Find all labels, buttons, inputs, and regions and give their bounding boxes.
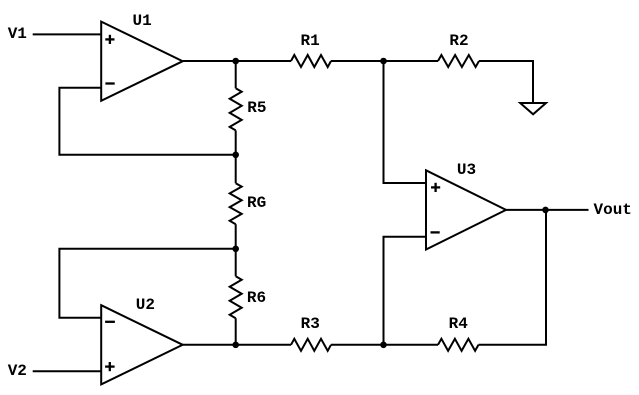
wire: node B down to U3 + — [384, 61, 427, 183]
svg-text:V1: V1 — [8, 25, 27, 43]
svg-text:U3: U3 — [457, 161, 476, 179]
junction: U2 out / R6 node E — [232, 342, 239, 349]
resistor R6 — [230, 276, 242, 318]
wire: node C to RG — [235, 155, 237, 183]
resistor R5 — [230, 88, 242, 130]
wire: U1 output to R1 — [183, 60, 291, 62]
wire: V1 input to U1 + — [33, 33, 102, 35]
wire: R5 to node C — [235, 130, 237, 154]
wire: R3 to node F — [331, 344, 438, 346]
resistor R2 — [438, 55, 479, 67]
resistor R3 — [291, 339, 331, 351]
wire: U1 - feedback loop — [59, 88, 235, 155]
op-amp U1 — [101, 22, 183, 101]
junction: R5-RG feedback node C — [232, 152, 239, 159]
junction: R1-R2 node B — [380, 58, 387, 65]
wire: R6 to node E — [235, 318, 237, 345]
resistor R1 — [291, 55, 331, 67]
svg-text:R6: R6 — [247, 289, 266, 307]
svg-text:U1: U1 — [133, 12, 152, 30]
wire: U3 - down to node F — [384, 237, 427, 345]
svg-text:R4: R4 — [449, 315, 469, 333]
wire: R2 to ground corner — [479, 61, 533, 102]
svg-text:U2: U2 — [136, 296, 155, 314]
wire: node D to R6 — [235, 249, 237, 276]
wire: R4 to Vout corner — [479, 210, 547, 345]
junction: U1 out / R5 node A — [232, 58, 239, 65]
wire: U3 output to Vout — [506, 209, 589, 211]
ground — [520, 103, 546, 114]
svg-text:Vout: Vout — [594, 201, 632, 219]
wire: U2 - feedback loop — [59, 249, 235, 318]
op-amp U3 — [426, 170, 506, 249]
wire: RG to node D — [235, 224, 237, 249]
wire: V2 input to U2 + — [33, 370, 102, 372]
wire: node A to R5 — [235, 61, 237, 88]
wire: U2 output to R3 — [183, 344, 291, 346]
svg-text:R2: R2 — [449, 32, 468, 50]
svg-text:RG: RG — [247, 194, 266, 212]
junction: RG-R6 feedback node D — [232, 246, 239, 253]
resistor RG — [230, 183, 242, 224]
svg-text:V2: V2 — [8, 362, 27, 380]
resistor R4 — [438, 339, 479, 351]
junction: Vout node — [542, 207, 549, 214]
svg-text:R1: R1 — [301, 32, 320, 50]
svg-text:R5: R5 — [247, 99, 266, 117]
wire: R1 to node B — [331, 60, 438, 62]
junction: R3-R4 node F — [380, 342, 387, 349]
svg-text:R3: R3 — [301, 315, 320, 333]
op-amp U2 — [101, 305, 183, 384]
